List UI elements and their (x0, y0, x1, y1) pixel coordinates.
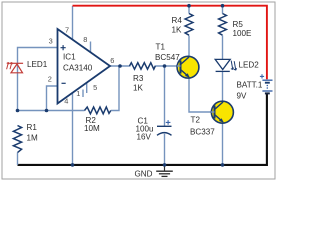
wire pin8 stub (90, 42, 92, 53)
transistor Q2 body (211, 101, 233, 123)
wire T1 base overlay (177, 65, 181, 67)
svg-text:5: 5 (93, 83, 97, 92)
svg-text:R4: R4 (172, 16, 183, 25)
svg-text:6: 6 (110, 56, 114, 65)
battery BATT.1 plate short top (265, 82, 270, 84)
op-amp minus input sign (62, 82, 66, 84)
wire R5 bottom lead to LED2 (222, 36, 224, 60)
transistor Q2 emitter diagonal (215, 115, 224, 123)
svg-text:8: 8 (83, 35, 87, 44)
wire T2 base overlay (211, 111, 215, 113)
wire R3 to T1 base (155, 65, 180, 67)
resistor R2 zigzag (85, 107, 111, 114)
wire pin7 (72, 6, 74, 41)
transistor Q1 base bar (180, 61, 182, 74)
transistor Q1 emitter diagonal (181, 70, 190, 78)
border frame (2, 2, 275, 179)
svg-text:100E: 100E (233, 29, 253, 38)
LED2 cathode bar (216, 70, 230, 72)
battery BATT.1 plate short bottom (265, 92, 270, 94)
svg-text:1K: 1K (172, 26, 183, 35)
LED1 cathode bar (9, 62, 23, 64)
wire R2 right to output riser (111, 66, 119, 111)
resistor R3 zigzag (130, 63, 156, 69)
svg-text:LED2: LED2 (239, 60, 260, 69)
wire inverting net horizontal (18, 110, 85, 112)
transistor Q2 emitter arrow (219, 118, 224, 122)
svg-text:9V: 9V (237, 92, 248, 101)
LED2 light arrow b (234, 61, 237, 70)
red positive rail (73, 6, 267, 80)
svg-text:GND: GND (135, 170, 153, 179)
svg-text:BC337: BC337 (190, 128, 215, 137)
svg-text:T2: T2 (191, 116, 201, 125)
junction R4 rail (187, 4, 191, 8)
svg-text:1M: 1M (27, 133, 39, 142)
resistor R5 zigzag (219, 14, 227, 36)
svg-text:7: 7 (65, 26, 69, 35)
transistor Q1 emitter arrow (185, 73, 190, 77)
wire T2 emitter to ground (222, 123, 224, 166)
wire pin5 stub (86, 83, 88, 93)
junction C1 tap (163, 64, 167, 68)
transistor Q1 body (177, 56, 199, 78)
wire pin4 to ground (72, 93, 74, 165)
svg-text:4: 4 (64, 96, 68, 105)
op-amp plus input sign (61, 45, 66, 50)
wire R4 bottom lead to T1 collector (188, 36, 190, 58)
resistor R4 zigzag (185, 14, 193, 36)
junction T2 emitter ground (221, 163, 225, 167)
battery BATT.1 plus sign (260, 74, 264, 78)
LED2 light arrow a (231, 61, 234, 70)
svg-text:1: 1 (76, 89, 80, 98)
LED1 light arrow b (10, 62, 12, 69)
wire pin3 to LED1/R1 vertical (18, 48, 58, 111)
svg-text:2: 2 (48, 74, 52, 83)
op-amp U1 triangle (58, 29, 111, 104)
transistor Q2 base bar (214, 106, 216, 119)
LED2 triangle (215, 59, 230, 69)
capacitor C1 plus sign (166, 120, 171, 125)
svg-text:IC1: IC1 (63, 52, 76, 61)
junction C1 ground (163, 163, 167, 167)
wire pin2 (47, 86, 58, 111)
svg-text:16V: 16V (137, 132, 152, 141)
svg-text:BATT.1: BATT.1 (237, 81, 263, 90)
LED1 light arrow a (7, 62, 9, 69)
battery BATT.1 plate long bottom (262, 90, 272, 92)
wire LED2 to T2 collector (222, 72, 224, 102)
junction output node (118, 64, 122, 68)
wire R5 top lead (222, 6, 224, 14)
svg-text:T1: T1 (156, 43, 166, 52)
battery BATT.1 plate long top (262, 79, 272, 81)
LED1 triangle (11, 64, 23, 73)
svg-text:1K: 1K (133, 83, 144, 92)
capacitor C1 curved plate (157, 133, 172, 136)
resistor R1 zigzag (13, 126, 21, 153)
wire R1 bottom lead (17, 153, 19, 166)
wire T1 emitter to T2 base (189, 78, 214, 113)
wire R4 top lead (188, 6, 190, 14)
junction LED1 R1 (16, 109, 20, 113)
svg-text:R5: R5 (233, 20, 244, 29)
junction pin2 net (45, 109, 49, 113)
wire output pin6 (110, 65, 130, 67)
svg-text:CA3140: CA3140 (63, 64, 93, 73)
junction R5 rail (221, 4, 225, 8)
svg-text:R3: R3 (133, 74, 144, 83)
junction pin4 ground (71, 163, 75, 167)
ground symbol (156, 166, 173, 176)
svg-text:LED1: LED1 (27, 60, 48, 69)
svg-text:10M: 10M (84, 124, 100, 133)
svg-text:3: 3 (49, 36, 53, 45)
wire pin1 stub (82, 90, 84, 98)
wire C1 top (164, 66, 166, 126)
svg-text:BC547: BC547 (155, 53, 180, 62)
transistor Q2 collector diagonal (215, 102, 224, 110)
transistor Q1 collector diagonal (181, 57, 190, 65)
battery BATT.1 dotted cells (267, 85, 269, 87)
ground rail (18, 94, 267, 165)
capacitor C1 top plate (157, 125, 172, 127)
svg-text:R1: R1 (27, 123, 38, 132)
wire C1 bottom (164, 134, 166, 165)
